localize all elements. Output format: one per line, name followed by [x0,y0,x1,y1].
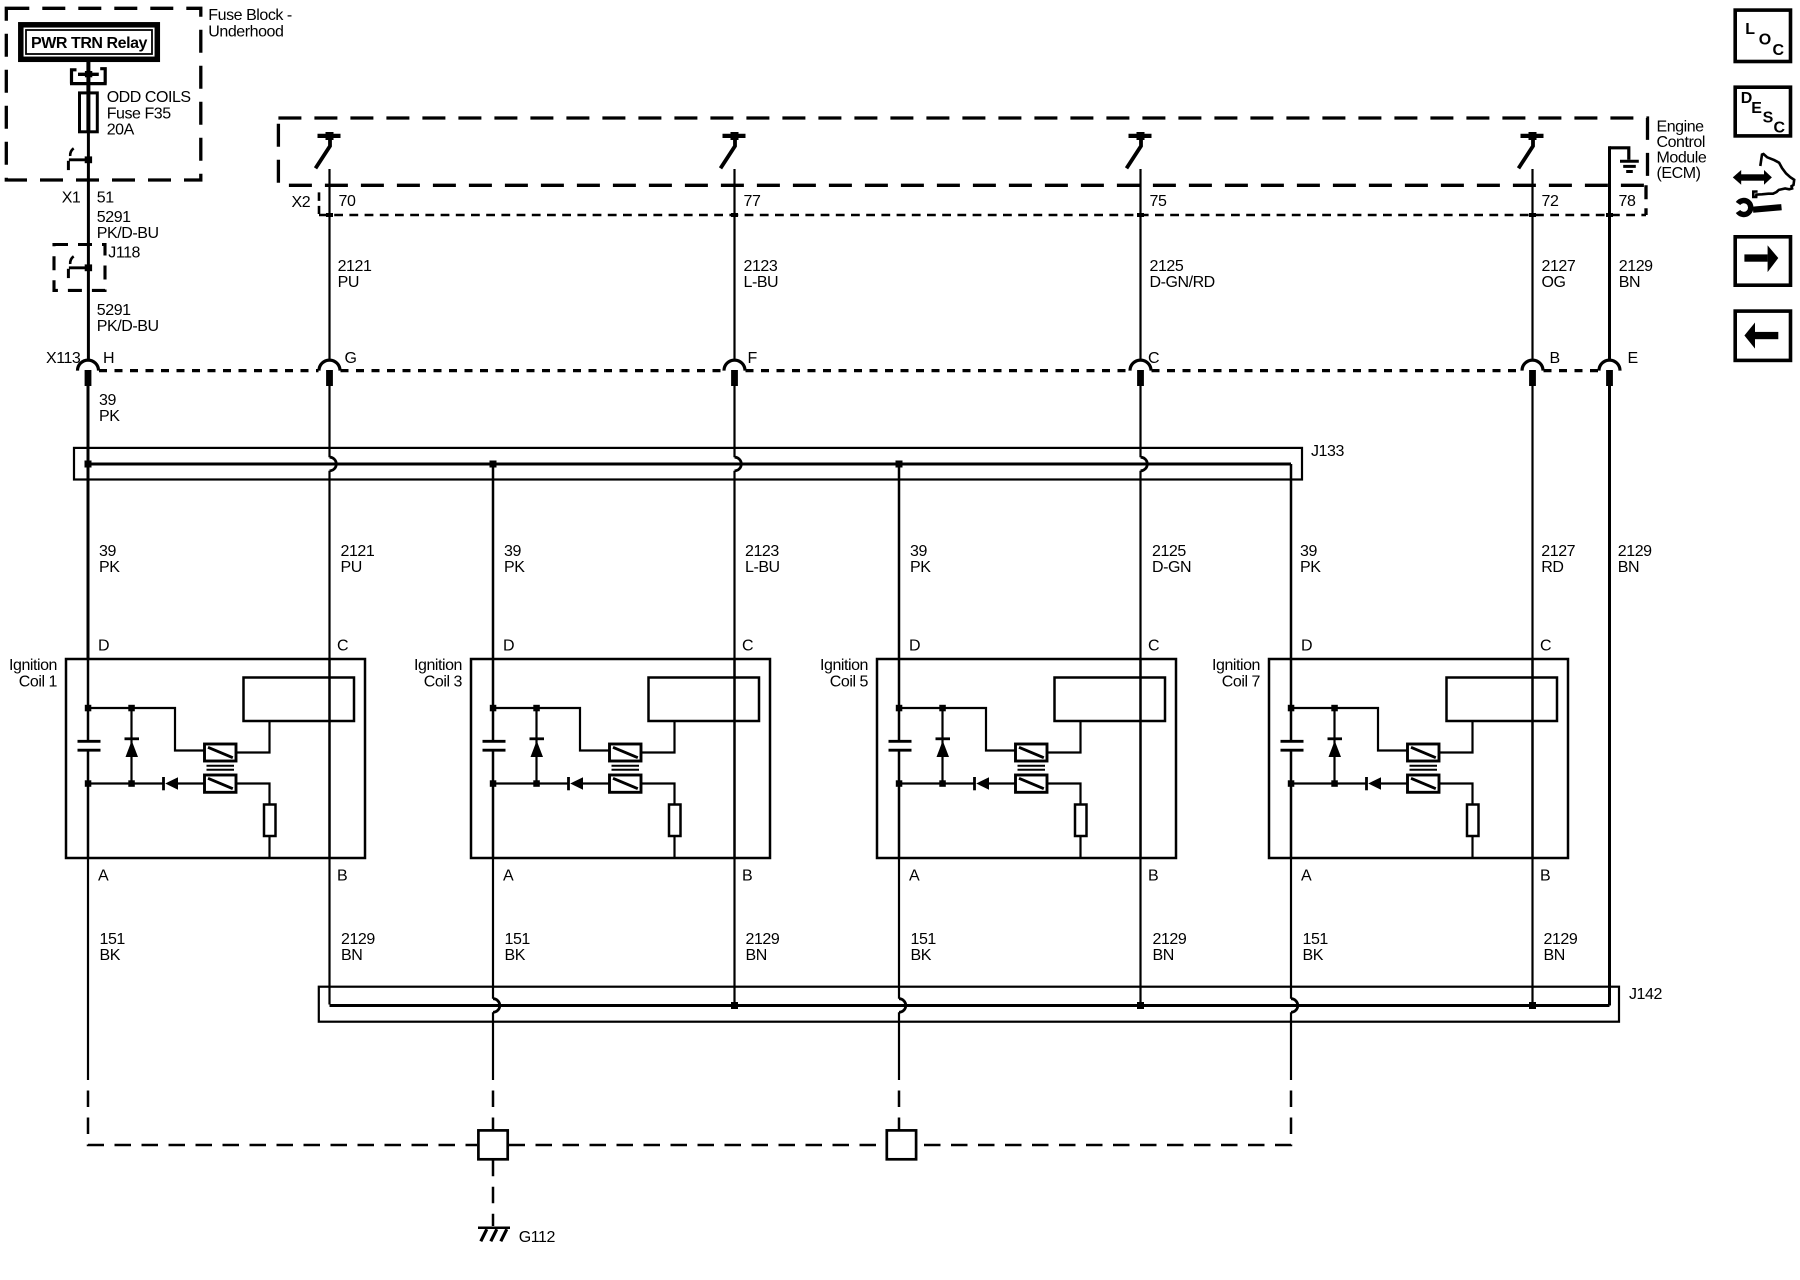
dashed ground run from coil 1 A [88,1080,477,1145]
X113 terminal F [724,360,745,386]
ground G112 [478,1227,510,1230]
svg-text:39: 39 [99,392,116,409]
wire J133 end drop to coil 7 D [1290,464,1293,659]
svg-text:L-BU: L-BU [745,559,780,576]
svg-text:2129: 2129 [1619,258,1653,275]
dashed wire splice to ground [492,1160,495,1226]
svg-text:Fuse F35: Fuse F35 [107,105,172,122]
wire hop over J133 [1139,386,1141,457]
wire 2127 OG (pin 72 to X113 B) [1531,169,1533,360]
ignition coil 7 [1269,638,1568,885]
wrench icon [1753,207,1782,210]
svg-text:BK: BK [1303,947,1324,964]
dashed drop coil 3 A to splice [492,1080,495,1130]
svg-text:Coil 7: Coil 7 [1222,674,1261,691]
svg-text:L-BU: L-BU [744,274,779,291]
svg-text:Ignition: Ignition [414,657,462,674]
svg-text:B: B [1550,350,1560,367]
svg-text:PK: PK [99,559,120,576]
svg-text:J133: J133 [1311,443,1344,460]
svg-text:Coil 3: Coil 3 [424,674,463,691]
svg-text:70: 70 [339,193,356,210]
svg-text:BN: BN [1153,947,1174,964]
DESC button [1735,87,1790,136]
svg-text:PK/D-BU: PK/D-BU [97,318,159,335]
splice bus J133 [74,448,1302,480]
X113 terminal H [78,360,99,386]
forward arrow button [1735,237,1790,285]
svg-text:X1: X1 [62,190,81,207]
X113 terminal E [1599,360,1620,386]
svg-text:S: S [1763,110,1774,127]
X113 terminal B [1522,360,1543,386]
fuse output terminal contact [68,148,92,170]
svg-text:G: G [345,350,357,367]
PWR TRN Relay box [21,25,158,60]
ignition coil 1 [66,638,365,885]
svg-text:(ECM): (ECM) [1657,165,1701,182]
svg-text:Coil 5: Coil 5 [830,674,869,691]
ECM driver switch [721,132,746,168]
svg-text:2123: 2123 [744,258,778,275]
svg-text:151: 151 [505,931,531,948]
svg-text:C: C [1773,42,1785,59]
svg-text:Underhood: Underhood [208,24,283,41]
relay output terminal cup [70,69,107,84]
svg-text:PWR TRN Relay: PWR TRN Relay [31,35,147,52]
ECM internal ground [1610,148,1629,160]
svg-text:2127: 2127 [1541,543,1575,560]
svg-text:PK: PK [504,559,525,576]
vehicle icon outline [1753,154,1794,197]
svg-text:39: 39 [504,543,521,560]
svg-text:39: 39 [910,543,927,560]
X113 terminal G [319,360,340,386]
svg-text:77: 77 [744,193,761,210]
ECM driver switch [1519,132,1544,168]
svg-text:C: C [1148,350,1159,367]
wire 39 PK feed to J133 [87,386,90,659]
connector X2 row [318,192,321,214]
wire 2129 BN right side down to J142 [1608,386,1611,1006]
splice connector J118 [54,245,105,291]
wire coil 3 B to J142 [733,858,735,1003]
wire coil 3 A (151 BK) with hop over J142 [492,858,494,999]
svg-text:Ignition: Ignition [820,657,868,674]
wire coil 7 B to J142 [1531,858,1533,1003]
wire hop over J133 [733,386,735,457]
svg-text:2123: 2123 [745,543,779,560]
svg-text:39: 39 [1300,543,1317,560]
svg-text:2125: 2125 [1150,258,1184,275]
svg-text:2121: 2121 [341,543,375,560]
svg-text:Ignition: Ignition [1212,657,1260,674]
splice square S1 [478,1130,507,1159]
dashed ground run from coil 7 A [918,1080,1292,1145]
svg-text:72: 72 [1542,193,1559,210]
svg-text:PK/D-BU: PK/D-BU [97,225,159,242]
splice square S2 [887,1130,916,1159]
wire coil 7 A (151 BK) with hop over J142 [1290,858,1292,999]
svg-text:151: 151 [100,931,126,948]
svg-text:D-GN/RD: D-GN/RD [1150,274,1215,291]
svg-text:E: E [1751,100,1762,117]
svg-text:20A: 20A [107,122,135,139]
Fuse Block - Underhood dashed enclosure [6,8,201,180]
svg-text:2129: 2129 [1153,931,1187,948]
svg-text:2129: 2129 [1544,931,1578,948]
svg-text:BK: BK [505,947,526,964]
svg-text:X2: X2 [292,194,311,211]
wire 2123 L-BU (pin 77 to X113 F) [733,169,735,360]
svg-text:2127: 2127 [1542,258,1576,275]
svg-text:PU: PU [338,274,359,291]
LOC button [1735,10,1790,61]
svg-text:BN: BN [1619,274,1640,291]
svg-text:151: 151 [1303,931,1329,948]
connector X113 row [99,369,319,372]
svg-text:D-GN: D-GN [1152,559,1191,576]
wire fuse to contact [87,132,90,160]
svg-text:F: F [748,350,758,367]
svg-text:5291: 5291 [97,209,131,226]
svg-text:PU: PU [341,559,362,576]
svg-text:BN: BN [1544,947,1565,964]
svg-text:OG: OG [1542,274,1566,291]
svg-text:Module: Module [1657,150,1707,167]
wire contact to X1 to J118 [87,160,90,268]
X113 terminal C [1130,360,1151,386]
wire hop over J133 [328,386,330,457]
svg-text:78: 78 [1619,193,1636,210]
svg-text:PK: PK [910,559,931,576]
wire J118 to X113 [87,268,90,361]
wire coil 1 B to J142 [328,858,330,1005]
svg-text:5291: 5291 [97,302,131,319]
svg-text:2129: 2129 [746,931,780,948]
svg-text:51: 51 [97,190,114,207]
svg-text:Fuse Block -: Fuse Block - [208,7,292,24]
wire coil 5 A (151 BK) with hop over J142 [898,858,900,999]
svg-text:BN: BN [746,947,767,964]
svg-text:PK: PK [1300,559,1321,576]
fuse F35 [80,93,98,132]
svg-text:L: L [1745,21,1755,38]
svg-text:RD: RD [1541,559,1563,576]
svg-text:BN: BN [341,947,362,964]
svg-text:G112: G112 [519,1229,556,1246]
wire coil 5 B to J142 [1139,858,1141,1003]
wire 2129 BN (pin 78 to X113 E) [1608,146,1611,360]
svg-text:O: O [1759,32,1771,49]
svg-text:E: E [1628,350,1638,367]
ECM driver switch [1127,132,1152,168]
svg-text:2129: 2129 [1618,543,1652,560]
wire 2125 D-GN/RD (pin 75 to X113 C) [1139,169,1141,360]
svg-text:C: C [1774,119,1786,136]
Engine Control Module dashed enclosure [278,118,1647,185]
svg-text:BN: BN [1618,559,1639,576]
svg-text:75: 75 [1150,193,1167,210]
svg-text:2125: 2125 [1152,543,1186,560]
wire J133 drop to coil 3 D [492,464,495,659]
ignition coil 3 [471,638,770,885]
wire J133 drop to coil 5 D [898,464,901,659]
wire coil 1 A (151 BK) [87,858,89,1080]
wire relay to terminal cup [86,62,90,75]
svg-text:Ignition: Ignition [9,657,57,674]
wire 2121 PU (pin 70 to X113 G) [328,169,330,360]
svg-text:Engine: Engine [1657,119,1705,136]
dashed ground run middle [509,1144,886,1147]
double arrow icon [1741,174,1765,180]
svg-text:BK: BK [911,947,932,964]
svg-text:H: H [103,350,114,367]
ECM driver switch [316,132,341,168]
svg-text:J118: J118 [108,245,140,262]
svg-text:ODD COILS: ODD COILS [107,89,191,106]
splice bus J142 [319,987,1619,1022]
dashed drop coil 5 A to splice [898,1080,901,1130]
svg-text:Coil 1: Coil 1 [19,674,58,691]
svg-text:J142: J142 [1629,986,1662,1003]
svg-text:PK: PK [99,408,120,425]
svg-text:2129: 2129 [341,931,375,948]
back arrow button [1735,311,1790,360]
wire B (X113) down to coil 7 C [1531,386,1533,659]
wire cup to fuse [86,75,90,93]
svg-text:BK: BK [100,947,121,964]
svg-text:151: 151 [911,931,937,948]
ignition coil 5 [877,638,1176,885]
svg-text:2121: 2121 [338,258,372,275]
svg-text:Control: Control [1657,134,1705,151]
svg-text:39: 39 [99,543,116,560]
svg-text:X113: X113 [46,350,81,367]
